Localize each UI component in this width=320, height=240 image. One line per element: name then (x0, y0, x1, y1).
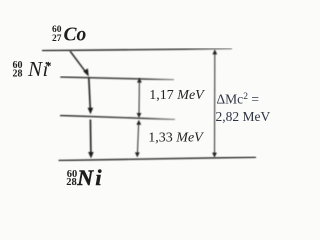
level line Ni-60* (excited) (60, 77, 174, 80)
label Ni-60 ground (60/28 Ni) (66, 165, 103, 190)
svg-text:2,82 MeV: 2,82 MeV (216, 109, 271, 124)
svg-text:28: 28 (66, 177, 77, 188)
measurement arrow delta-Mc2 (right side, Co level to ground) (212, 49, 217, 157)
svg-text:ΔMc2 =: ΔMc2 = (217, 92, 259, 107)
gamma arrow 1 (Ni* to intermediate) (88, 78, 94, 115)
measurement arrow 1,33 MeV (135, 120, 141, 158)
label Co-60 (60/27 Co) (52, 25, 87, 46)
beta decay arrow (Co to Ni*) (70, 51, 89, 77)
svg-text:27: 27 (52, 34, 62, 44)
level line intermediate (1.33 MeV) (60, 115, 175, 119)
level line Ni-60 ground (59, 157, 257, 160)
label Ni-60* (60/28 Ni*) (13, 57, 51, 81)
svg-text:1,17 MeV: 1,17 MeV (149, 88, 205, 103)
value label delta Mc2 = 2,82 MeV (216, 92, 271, 125)
svg-text:28: 28 (13, 69, 23, 80)
svg-text:Ni: Ni (76, 165, 103, 190)
gamma arrow 2 (intermediate to ground) (88, 120, 94, 159)
svg-text:1,33 MeV: 1,33 MeV (148, 131, 204, 146)
measurement arrow 1,17 MeV (137, 78, 142, 118)
svg-text:Ni: Ni (27, 57, 49, 81)
svg-text:Co: Co (64, 25, 87, 46)
level line Co-60 (top) (42, 49, 232, 51)
